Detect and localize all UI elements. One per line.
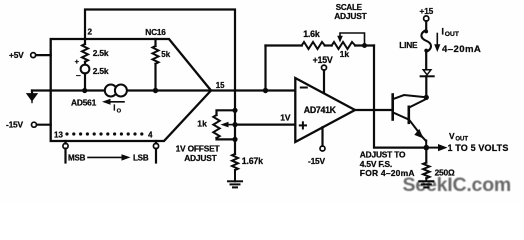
- node junction on rail below source: [82, 88, 87, 93]
- svg-text:+5V: +5V: [9, 50, 24, 60]
- svg-text:-15V: -15V: [6, 120, 24, 130]
- svg-text:1 TO 5 VOLTS: 1 TO 5 VOLTS: [448, 143, 509, 153]
- svg-text:FOR 4–20mA: FOR 4–20mA: [360, 168, 415, 178]
- svg-text:OUT: OUT: [455, 137, 468, 143]
- terminal +15 line supply: [424, 16, 429, 30]
- LSB pin terminal: [153, 141, 158, 163]
- node pot bottom junction: [232, 137, 237, 142]
- svg-text:+15V: +15V: [313, 55, 333, 65]
- resistor 1.67k: [232, 154, 238, 170]
- node Vout junction: [424, 145, 430, 151]
- svg-text:OUT: OUT: [445, 31, 460, 38]
- svg-text:NC16: NC16: [145, 27, 166, 37]
- svg-text:V: V: [449, 131, 455, 141]
- wire op-amp output to Q1 base: [355, 109, 391, 111]
- node wiper junction: [232, 122, 237, 127]
- svg-text:LSB: LSB: [133, 154, 149, 163]
- MSB pin terminal: [63, 141, 68, 163]
- wire top feedback (pin2 bipolar offset run): [85, 10, 235, 111]
- wire ground to DAC rail: [32, 89, 51, 91]
- transistor Q2 (darlington second): [409, 99, 426, 147]
- terminal +5V: [31, 53, 36, 58]
- terminal -15V: [32, 122, 37, 127]
- svg-text:250Ω: 250Ω: [435, 167, 455, 177]
- transistor Q1 (darlington first): [393, 95, 427, 120]
- node junction 5k to rail: [153, 88, 158, 93]
- svg-text:2.5k: 2.5k: [93, 66, 109, 76]
- svg-text:+15: +15: [420, 6, 434, 16]
- svg-text:1k: 1k: [340, 49, 350, 59]
- svg-text:LINE: LINE: [399, 40, 418, 50]
- arrow MSB to LSB: [88, 154, 131, 160]
- svg-text:–: –: [76, 70, 81, 80]
- current source Io (double circles): [105, 85, 127, 97]
- arrow Vout: [426, 144, 447, 151]
- svg-text:I: I: [113, 103, 115, 112]
- potentiometer 1k (scale adjust): [332, 42, 356, 49]
- svg-text:SeekIC.com: SeekIC.com: [403, 174, 512, 196]
- svg-text:15: 15: [216, 81, 225, 90]
- svg-text:4: 4: [148, 130, 153, 139]
- DAC U1 AD561 outline: [51, 39, 211, 141]
- node wiper tie junction: [362, 43, 367, 48]
- resistor 250 ohm: [423, 148, 429, 179]
- source V 2.5k (circle with +/-): [81, 62, 90, 91]
- svg-text:1.67k: 1.67k: [242, 156, 263, 166]
- op-amp U2 AD741K: [295, 78, 355, 142]
- pot wiper scale adjust: [337, 33, 364, 46]
- wire -15V to DAC: [37, 124, 51, 126]
- ground below 1.67k: [228, 170, 242, 187]
- terminal +15V op-amp: [322, 65, 327, 93]
- wire 1V input to op-amp plus: [235, 123, 295, 125]
- svg-text:2: 2: [88, 28, 93, 37]
- svg-text:1k: 1k: [197, 118, 207, 128]
- Iout arrow: [434, 34, 440, 53]
- svg-text:4–20mA: 4–20mA: [442, 44, 481, 55]
- Io arrow: [102, 99, 124, 105]
- resistor 1.6k: [302, 42, 325, 49]
- wire summing node up to feedback: [264, 46, 266, 91]
- node offset-line top junction: [232, 108, 237, 113]
- wire sense line down and to Vout node: [374, 46, 426, 148]
- ground (analog common arrow): [27, 91, 37, 103]
- wire coil to diode: [425, 52, 427, 70]
- svg-text:+: +: [75, 57, 80, 66]
- svg-text:5k: 5k: [161, 50, 170, 59]
- wire pot to sense line: [355, 44, 374, 46]
- node collector junction: [424, 95, 429, 100]
- svg-text:-15V: -15V: [308, 156, 326, 166]
- svg-text:1V: 1V: [280, 113, 291, 123]
- resistor 5k: [153, 39, 159, 91]
- label minus input: [301, 87, 307, 89]
- wire offset line down to 1.67k: [234, 110, 236, 154]
- resistor 2.5k upper: [82, 44, 88, 62]
- svg-text:MSB: MSB: [68, 154, 86, 163]
- node summing junction: [263, 88, 268, 93]
- potentiometer 1k (1V offset adjust): [213, 110, 235, 139]
- wire +5V to DAC: [36, 54, 51, 56]
- diode D1: [421, 70, 434, 77]
- terminal -15V op-amp: [320, 127, 325, 151]
- svg-text:O: O: [117, 108, 122, 114]
- svg-text:ADJUST: ADJUST: [184, 153, 217, 163]
- svg-text:13: 13: [54, 130, 63, 139]
- wire 1.6k to pot: [325, 44, 332, 46]
- line coil symbol: [421, 30, 431, 53]
- svg-text:AD561: AD561: [71, 98, 97, 108]
- internal rail / pin15 wire to op-amp: [51, 89, 296, 91]
- svg-text:AD741K: AD741K: [304, 105, 337, 115]
- wire feedback horizontal: [266, 44, 302, 46]
- pot 1k wiper arrow: [221, 122, 236, 128]
- label plus input: [300, 122, 306, 128]
- wire diode to collector node: [425, 76, 427, 97]
- svg-text:ADJUST: ADJUST: [334, 11, 367, 21]
- svg-text:2.5k: 2.5k: [93, 48, 109, 58]
- ground below 250 ohm: [419, 178, 433, 187]
- svg-text:1.6k: 1.6k: [303, 29, 320, 39]
- digital input dots row: [65, 132, 143, 135]
